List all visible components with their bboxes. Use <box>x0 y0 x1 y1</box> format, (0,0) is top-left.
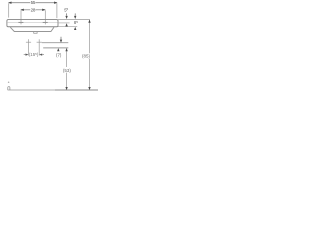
dimension 55 arrowheads <box>8 2 57 4</box>
mounting hole cross right <box>37 39 42 55</box>
dim 8.5: down arrow <box>74 16 76 19</box>
floor line <box>8 89 55 91</box>
rim bottom extension line <box>58 22 70 24</box>
dim 15.5 arrows <box>26 54 43 56</box>
dimension 28 extension lines / tap hole centerlines <box>21 10 45 24</box>
dimension 55 line <box>9 2 57 4</box>
drain outlet stub <box>34 32 37 34</box>
fixing axis line A <box>42 42 69 44</box>
dimension 28 arrowheads <box>20 9 45 11</box>
svg-text:28: 28 <box>31 7 36 12</box>
dimension 28 line <box>21 9 45 11</box>
dim 85 vertical line <box>89 20 91 90</box>
dim 53 vertical line <box>66 48 68 90</box>
mounting hole cross left <box>26 39 31 55</box>
svg-text:85: 85 <box>74 20 78 25</box>
top edge extension line to right <box>58 19 90 21</box>
svg-text:(155): (155) <box>29 52 39 57</box>
trap level line B <box>43 47 68 49</box>
dim 5.5: down arrow <box>65 16 67 19</box>
dim 5.5: up arrow <box>65 23 67 26</box>
svg-text:(85): (85) <box>82 54 91 59</box>
washbasin outline (front view) <box>7 20 58 27</box>
basin bottom extension line <box>58 26 77 28</box>
dim 7: down arrow <box>60 40 62 43</box>
dimension 55 extension lines <box>9 3 57 18</box>
svg-text:(53): (53) <box>63 68 72 73</box>
dim 85 down arrow <box>88 87 90 90</box>
dim 8.5: up arrow <box>74 27 76 30</box>
dim 7: up arrow <box>57 48 59 51</box>
dim 85 up arrow <box>88 20 90 23</box>
tap hole cross right <box>43 21 48 23</box>
basin inner rim line <box>7 22 57 24</box>
tap hole cross left <box>18 21 23 23</box>
svg-text:55: 55 <box>31 0 36 5</box>
dim 53 down arrow <box>65 87 67 90</box>
svg-text:55: 55 <box>64 7 68 12</box>
floor level icon <box>8 81 10 83</box>
basin underside taper <box>10 27 54 31</box>
svg-text:(7): (7) <box>56 53 62 58</box>
dim 53 up arrow <box>65 48 67 51</box>
